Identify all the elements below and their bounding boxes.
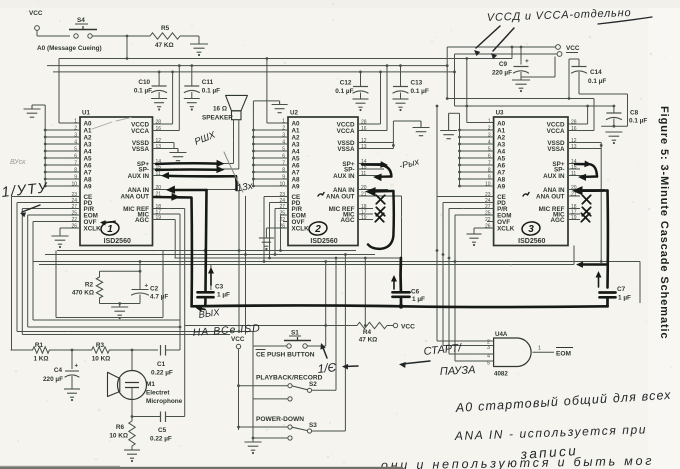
- svg-text:27: 27: [485, 204, 491, 210]
- wire U3 SP+ stub: [568, 163, 580, 165]
- wire U3 P/R down: [449, 208, 494, 210]
- svg-text:20: 20: [361, 185, 367, 191]
- svg-text:9: 9: [282, 175, 285, 181]
- svg-text:0.22 µF: 0.22 µF: [151, 370, 173, 377]
- capacitor C12 0.1uF: [359, 71, 362, 74]
- capacitor C13 0.1uF: [399, 64, 402, 67]
- svg-text:M1: M1: [146, 381, 155, 388]
- wire mic bottom: [131, 400, 133, 417]
- hand bold U1 ANA OUT arrow right and down: [154, 196, 172, 199]
- wire bundle left-to-switches 3: [28, 326, 180, 328]
- svg-text:2: 2: [488, 126, 491, 132]
- bus line C under chips: [175, 257, 402, 259]
- svg-text:XCLK: XCLK: [497, 225, 515, 232]
- svg-text:C7: C7: [617, 286, 626, 293]
- hand arrow into C3 bottom (VYH): [204, 298, 207, 306]
- capacitor C8 0.1uF: [613, 105, 616, 108]
- wire U3 CE down: [437, 196, 494, 198]
- capacitor C11 0.1uF: [190, 64, 193, 67]
- ground (U2 address bus): [253, 100, 279, 102]
- svg-text:6: 6: [74, 154, 77, 160]
- svg-text:VSSA: VSSA: [132, 146, 150, 153]
- svg-text:0.1 µF: 0.1 µF: [335, 88, 353, 95]
- svg-text:CE PUSH BUTTON: CE PUSH BUTTON: [256, 352, 315, 359]
- wire U1 AUX IN: [153, 175, 237, 177]
- svg-text:28: 28: [571, 120, 577, 126]
- svg-text:C14: C14: [590, 69, 602, 76]
- svg-text:A9: A9: [497, 183, 506, 190]
- wire bundle left-to-switches 2: [22, 334, 230, 336]
- wire U3 ANA IN stub: [568, 189, 605, 191]
- ground (C9): [512, 79, 530, 81]
- svg-text:1: 1: [107, 224, 113, 235]
- svg-text:A7: A7: [497, 169, 506, 176]
- svg-text:220 µF: 220 µF: [43, 376, 63, 383]
- svg-text:AUX IN: AUX IN: [543, 173, 565, 180]
- capacitor C5 0.22uF (series): [132, 416, 161, 418]
- svg-text:+: +: [75, 364, 79, 370]
- wire thin riser near C3: [210, 265, 212, 291]
- svg-text:0.1 µF: 0.1 µF: [629, 118, 647, 125]
- wire U2 SP- stub: [358, 168, 384, 170]
- capacitor C10 0.1uF: [158, 71, 161, 74]
- bus risers to U3/gate column: [436, 249, 439, 252]
- svg-text:C2: C2: [150, 286, 159, 293]
- svg-text:3: 3: [487, 345, 490, 351]
- svg-text:9: 9: [488, 175, 491, 181]
- wire C14 bottom loop: [579, 93, 628, 95]
- svg-text:R5: R5: [161, 25, 170, 32]
- svg-text:XCLK: XCLK: [292, 225, 310, 232]
- handwriting START/PAUZA: [402, 361, 430, 364]
- svg-text:A5: A5: [292, 155, 301, 162]
- svg-text:A7: A7: [292, 169, 301, 176]
- switch S3: [237, 426, 240, 429]
- svg-text:ISD2560: ISD2560: [310, 238, 337, 245]
- hand X marks U3 unused pins: [582, 195, 590, 203]
- hand bold U1 ANA IN riser to C3: [206, 190, 207, 291]
- resistor R2 470K: [100, 270, 141, 272]
- ground (U3 address bus): [449, 112, 460, 114]
- svg-text:5: 5: [487, 360, 490, 366]
- wire bus to gate pin 2: [436, 106, 438, 341]
- op-amp style AND gate U4A 4082: [494, 338, 532, 367]
- wire U1 P/R to left bus: [22, 208, 80, 210]
- svg-text:C4: C4: [54, 367, 63, 374]
- wire U3 PD down: [443, 202, 494, 204]
- svg-text:16: 16: [361, 126, 367, 132]
- svg-text:26: 26: [71, 224, 77, 230]
- svg-text:0.1 µF: 0.1 µF: [202, 88, 220, 95]
- svg-text:VCC: VCC: [231, 336, 245, 343]
- svg-text:ISD2560: ISD2560: [104, 238, 131, 245]
- wire U3 MIC REF stub: [568, 208, 580, 210]
- svg-text:6: 6: [282, 154, 285, 160]
- net VCCA rail: [47, 65, 447, 67]
- microphone M1 electret: [131, 350, 133, 371]
- IC U1 ISD2560 body: [80, 117, 153, 246]
- wire A0 rail to U1 pin A0: [58, 59, 60, 124]
- wire U1 EOM to left bus: [28, 214, 80, 216]
- svg-text:A1: A1: [84, 127, 93, 134]
- capacitor C3 1uF (hand bold): [198, 291, 214, 294]
- wire U2 MIC REF stub: [358, 208, 373, 210]
- bus line A under chips: [57, 250, 356, 252]
- svg-text:3: 3: [488, 133, 491, 139]
- hand arrows to VCC rails: [476, 26, 500, 48]
- svg-text:A6: A6: [497, 162, 506, 169]
- hand-circled number 1 inside U1: [100, 221, 120, 236]
- svg-text:4.7 µF: 4.7 µF: [150, 294, 168, 301]
- svg-text:4: 4: [488, 140, 491, 146]
- svg-text:VSSA: VSSA: [547, 146, 565, 153]
- svg-text:16: 16: [156, 126, 162, 132]
- svg-text:1 µF: 1 µF: [618, 295, 631, 302]
- wire U2 OVF stub: [283, 221, 288, 223]
- svg-text:15: 15: [571, 165, 577, 171]
- capacitor C1 0.22uF (series): [160, 345, 162, 356]
- svg-text:+: +: [145, 284, 149, 290]
- wire U1 OVF to left bus: [33, 221, 80, 223]
- svg-text:13: 13: [571, 144, 577, 150]
- svg-text:A0 (Message Cueing): A0 (Message Cueing): [37, 45, 102, 52]
- wire U3 MIC stub: [568, 213, 580, 215]
- svg-text:11: 11: [571, 171, 576, 177]
- svg-text:C5: C5: [158, 427, 167, 434]
- svg-text:XCLK: XCLK: [84, 225, 102, 232]
- svg-text:AUX IN: AUX IN: [128, 173, 150, 180]
- svg-text:C8: C8: [630, 110, 639, 117]
- U1 address bus: [44, 105, 46, 186]
- svg-text:2: 2: [282, 126, 285, 132]
- svg-text:AGC: AGC: [135, 217, 149, 224]
- net VCCD rail: [53, 71, 455, 73]
- wire A0 rail to U2 pin A0: [266, 57, 269, 60]
- hand bold U2 ANA IN drop and curl: [368, 191, 394, 249]
- svg-text:19: 19: [156, 215, 162, 221]
- wire U3 lower right loop: [573, 246, 575, 265]
- svg-text:Microphone: Microphone: [146, 398, 183, 405]
- wire U2 VCCA pin 16 riser: [358, 130, 387, 132]
- ground (U1 address bus): [32, 104, 45, 106]
- svg-text:AGC: AGC: [341, 217, 355, 224]
- svg-text:5: 5: [488, 147, 491, 153]
- svg-text:1 µF: 1 µF: [217, 292, 230, 299]
- hand up-arrow near C7: [598, 274, 600, 287]
- svg-text:A4: A4: [292, 148, 301, 155]
- wire C9 to second VCC terminal: [521, 76, 555, 78]
- wire gate output EOM: [533, 351, 555, 353]
- svg-text:5: 5: [74, 147, 77, 153]
- svg-text:7: 7: [74, 161, 77, 167]
- svg-text:25: 25: [71, 211, 77, 217]
- wire U2 AGC stub: [358, 219, 373, 221]
- svg-text:A8: A8: [84, 176, 93, 183]
- wire VCCD rail to U3 pin 28: [586, 105, 589, 108]
- svg-text:ISD2560: ISD2560: [518, 238, 545, 245]
- wire bundle left-to-switches 1: [17, 331, 253, 333]
- svg-text:3: 3: [282, 133, 285, 139]
- svg-text:VCCA: VCCA: [131, 128, 149, 135]
- wire VCC to S4: [37, 35, 70, 37]
- wire S3 lower contact: [253, 437, 288, 439]
- wire U2 VCCD pin 28 riser: [358, 123, 381, 125]
- wire U3 SP- stub: [568, 168, 580, 170]
- wire right column down: [639, 262, 641, 304]
- wire bundle left-to-switches 4: [33, 319, 180, 321]
- svg-text:13: 13: [361, 144, 367, 150]
- svg-text:21: 21: [571, 192, 577, 198]
- hand-circled number 3 inside U3: [521, 221, 541, 236]
- wire U2 SP+ stub: [358, 163, 384, 165]
- wire speaker to U1 SP+: [233, 120, 235, 164]
- svg-text:C3: C3: [215, 284, 224, 291]
- capacitor C14 0.1uF: [569, 58, 579, 60]
- wire A0 rail to U3 pin A0: [465, 57, 468, 60]
- svg-text:Electret: Electret: [146, 390, 170, 397]
- svg-text:1: 1: [538, 346, 541, 352]
- svg-text:U2: U2: [290, 110, 298, 117]
- node A0 drop: [126, 36, 128, 59]
- svg-text:8: 8: [74, 168, 77, 174]
- faint pencil dash inside U1: [92, 118, 131, 130]
- wire U2 P/R down: [275, 208, 288, 210]
- svg-text:A8: A8: [292, 176, 301, 183]
- hand bold arrow U1 AUX IN: [161, 172, 169, 179]
- wire U1 VSSD/VSSA to ground: [153, 142, 175, 144]
- bus line D under chips: [34, 261, 641, 263]
- svg-text:22: 22: [485, 217, 491, 223]
- svg-text:0.1 µF: 0.1 µF: [588, 78, 606, 85]
- wire U3 OVF stub: [487, 221, 494, 223]
- svg-text:7: 7: [282, 161, 285, 167]
- svg-text:ПАУЗА: ПАУЗА: [440, 364, 476, 378]
- svg-text:ANA OUT: ANA OUT: [121, 193, 150, 200]
- wire riser to R4 line: [364, 257, 367, 260]
- svg-text:A0: A0: [292, 120, 301, 127]
- rail VCCA right section: [447, 98, 594, 100]
- svg-text:1: 1: [488, 119, 491, 125]
- wire U3 EOM down: [455, 214, 494, 216]
- svg-text:8: 8: [488, 168, 491, 174]
- wire U1 XCLK to ground: [60, 227, 80, 229]
- U2 address bus: [252, 101, 254, 186]
- svg-text:7: 7: [488, 161, 491, 167]
- wire loop around R2/C2: [55, 251, 57, 318]
- svg-text:A0: A0: [84, 120, 93, 127]
- svg-text:26: 26: [485, 224, 491, 230]
- svg-text:A9: A9: [84, 183, 93, 190]
- svg-text:5: 5: [282, 147, 285, 153]
- hand up-arrow near C3: [210, 270, 212, 285]
- wire U1 VCCD pin 28 riser: [153, 123, 173, 125]
- hand bold arrow U1 SP-: [156, 168, 217, 171]
- svg-text:VCCA: VCCA: [547, 128, 565, 135]
- ground (R2/C2): [111, 306, 128, 308]
- svg-text:22: 22: [71, 217, 77, 223]
- resistor R4 47K: [357, 322, 387, 328]
- svg-text:A4: A4: [497, 148, 506, 155]
- svg-text:A7: A7: [84, 169, 93, 176]
- hand squiggle U2 ANA OUT: [318, 193, 324, 197]
- ground (C8): [605, 131, 622, 133]
- svg-text:S1: S1: [291, 330, 299, 337]
- wire U3 AGC stub: [568, 219, 580, 221]
- wire bus to gate pin 3: [442, 255, 444, 346]
- wire S2 lower contact: [253, 398, 288, 400]
- svg-text:A1: A1: [497, 127, 506, 134]
- wire U2 EOM down: [281, 214, 289, 216]
- svg-text:A6: A6: [292, 162, 301, 169]
- svg-text:28: 28: [361, 120, 367, 126]
- svg-text:A9: A9: [292, 183, 301, 190]
- svg-text:VCCA: VCCA: [337, 128, 355, 135]
- wire C2 node riser to bus: [139, 260, 142, 263]
- svg-text:16: 16: [571, 126, 577, 132]
- svg-text:1: 1: [74, 119, 77, 125]
- rail VCCD right section: [455, 105, 614, 107]
- svg-text:U4A: U4A: [495, 331, 508, 338]
- svg-text:2: 2: [74, 126, 77, 132]
- hand bold output line across bottom: [192, 305, 608, 307]
- wire U2 ANA IN stub: [358, 189, 388, 191]
- ground (U1 VSS): [177, 149, 179, 153]
- wire S2 to bus riser: [312, 389, 336, 391]
- svg-text:47 KΩ: 47 KΩ: [359, 337, 378, 344]
- bus line B under chips: [45, 254, 375, 256]
- svg-text:R3: R3: [96, 342, 105, 349]
- wire S4 to R5, junction to A0 rail: [92, 35, 150, 37]
- svg-text:POWER-DOWN: POWER-DOWN: [256, 416, 304, 423]
- svg-text:20: 20: [156, 185, 162, 191]
- svg-text:10: 10: [71, 182, 77, 188]
- svg-text:3: 3: [74, 133, 77, 139]
- svg-text:4: 4: [282, 140, 285, 146]
- net A0 bus rail: [59, 58, 512, 60]
- wire R2/C2 common to ground: [100, 303, 141, 305]
- svg-text:21: 21: [361, 192, 367, 198]
- svg-text:EOM: EOM: [556, 351, 572, 358]
- svg-text:U1: U1: [82, 110, 90, 117]
- svg-text:8: 8: [282, 168, 285, 174]
- wire U2 AUX IN stub: [358, 175, 380, 177]
- svg-text:ANA OUT: ANA OUT: [326, 193, 355, 200]
- svg-text:13: 13: [156, 144, 162, 150]
- wire bus to gate pin 5: [454, 262, 456, 362]
- hand bold U2 SP cascade hook: [362, 165, 391, 177]
- svg-text:VSSA: VSSA: [337, 146, 355, 153]
- svg-text:+: +: [525, 58, 529, 65]
- hand X marks U2 unused pins: [376, 195, 384, 203]
- hand bold arrow under U3: [580, 263, 608, 266]
- wire U2 CE down: [264, 196, 288, 198]
- svg-text:A3: A3: [497, 141, 506, 148]
- svg-text:1 KΩ: 1 KΩ: [33, 356, 48, 363]
- wire U2 XCLK to ground: [266, 227, 288, 229]
- svg-text:2: 2: [314, 224, 321, 235]
- svg-text:0.1 µF: 0.1 µF: [134, 88, 152, 95]
- svg-text:Figure 5: 3-Minute Cascade Sc: Figure 5: 3-Minute Cascade Schematic: [658, 106, 670, 340]
- wire speaker to U1 SP-: [238, 120, 240, 169]
- wire R4 line: [185, 325, 357, 327]
- svg-text:C10: C10: [138, 79, 150, 86]
- wire VCCD rail right riser: [446, 47, 448, 99]
- svg-text:0.1 µF: 0.1 µF: [411, 88, 429, 95]
- svg-text:A2: A2: [292, 134, 301, 141]
- ground (switch common): [252, 438, 254, 442]
- svg-text:VCC: VCC: [29, 10, 43, 17]
- wire U2 MIC stub: [358, 213, 373, 215]
- svg-text:C6: C6: [411, 289, 420, 296]
- svg-text:A3: A3: [84, 141, 93, 148]
- svg-text:27: 27: [71, 204, 77, 210]
- svg-text:VCC: VCC: [566, 45, 580, 52]
- wire U1 PD to left bus: [17, 202, 80, 204]
- wire A0 rail corner to VCC rail top right: [511, 47, 513, 59]
- hand bold arrow U3 AUX IN: [578, 174, 586, 181]
- hand bold arrow U2 ANA IN: [365, 187, 376, 196]
- svg-text:C9: C9: [499, 61, 508, 68]
- svg-text:19: 19: [571, 215, 577, 221]
- svg-text:C11: C11: [202, 79, 214, 86]
- wire mic bias line: [11, 349, 33, 351]
- wire U1 MIC riser to C1: [153, 213, 181, 215]
- capacitor C2 4.7uF: [139, 271, 141, 289]
- wire riser to switch VCC area 2: [245, 196, 247, 335]
- svg-text:11: 11: [361, 171, 366, 177]
- svg-text:28: 28: [156, 120, 162, 126]
- svg-text:R6: R6: [116, 424, 125, 431]
- hand-circled number 2 inside U2: [308, 221, 328, 236]
- hand bold arrow U3 ANA IN: [572, 186, 583, 195]
- svg-text:1 µF: 1 µF: [412, 296, 425, 303]
- svg-text:U3: U3: [496, 110, 504, 117]
- svg-text:470 KΩ: 470 KΩ: [72, 290, 94, 297]
- svg-text:A1: A1: [292, 127, 301, 134]
- resistor R6 10K: [129, 421, 135, 446]
- svg-text:19: 19: [361, 215, 367, 221]
- svg-text:R2: R2: [85, 282, 94, 289]
- svg-text:4: 4: [487, 353, 490, 359]
- svg-text:ANA OUT: ANA OUT: [536, 193, 565, 200]
- hand bold U3 ANA IN riser to C7: [606, 191, 609, 288]
- svg-text:4: 4: [74, 140, 77, 146]
- wire U1 AGC down: [153, 219, 176, 221]
- wire U1 VCCA pin 16 riser: [153, 130, 180, 132]
- wire U1 MIC REF riser to C5: [153, 208, 185, 210]
- hand bold arrow U1 ANA IN: [166, 186, 175, 194]
- wire U3 ANA OUT stub: [568, 195, 580, 197]
- ground (U3 XCLK): [467, 233, 482, 235]
- svg-text:16 Ω: 16 Ω: [213, 106, 227, 113]
- ground (U2 XCLK): [259, 237, 274, 239]
- wire U3 AUX IN stub: [568, 175, 583, 177]
- wire U1 CE to left bus: [12, 196, 81, 198]
- svg-text:AGC: AGC: [551, 217, 565, 224]
- ground (C4): [64, 388, 80, 390]
- svg-text:10: 10: [279, 182, 285, 188]
- scanner dark edge bottom: [0, 467, 403, 469]
- capacitor C7 1uF (hand bold): [600, 291, 616, 294]
- wire U3 VSSD/VSSA down: [568, 142, 601, 144]
- svg-text:6: 6: [488, 154, 491, 160]
- svg-text:220 µF: 220 µF: [492, 70, 512, 77]
- svg-text:0.22 µF: 0.22 µF: [150, 436, 172, 443]
- IC U2 ISD2560 body: [288, 117, 358, 246]
- capacitor C9 220uF: [520, 46, 523, 49]
- svg-text:C12: C12: [340, 80, 352, 87]
- svg-text:C13: C13: [411, 80, 423, 87]
